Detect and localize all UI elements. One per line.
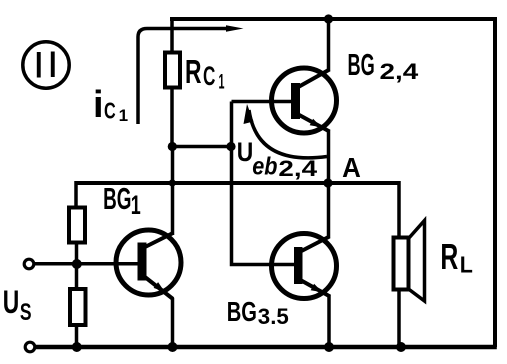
svg-text:U: U	[237, 137, 254, 167]
wire: top rail to BG2,4 collector	[327, 19, 331, 71]
svg-text:i: i	[93, 84, 104, 126]
wire: R1 bottom to tap	[75, 243, 79, 265]
label RC1	[185, 53, 225, 94]
svg-text:2,4: 2,4	[278, 156, 318, 181]
wire: node A corner down to speaker	[397, 181, 401, 239]
wire: vertical branch from BG2,4 base down to BG3,5 base	[232, 102, 296, 265]
junction dot on top rail	[324, 14, 333, 23]
wire: node A horizontal line	[76, 181, 399, 185]
wire: junction to BG2,4 base branch	[172, 145, 231, 149]
svg-text:1: 1	[131, 190, 141, 220]
junction dot rail at speaker	[396, 342, 406, 352]
wire: bottom rail	[35, 345, 497, 350]
junction blob where BG1 collector crosses node A line	[169, 179, 176, 186]
svg-text:BG: BG	[103, 182, 131, 216]
wire: BG2,4 emitter down to node A	[327, 130, 331, 183]
current arrow iC1	[138, 25, 244, 124]
input terminal upper	[24, 259, 34, 269]
wire: upper terminal to BG1 base	[34, 262, 138, 266]
wire: BG1 emitter down to bottom rail	[171, 298, 175, 347]
svg-text:L: L	[460, 251, 473, 277]
svg-text:A: A	[342, 152, 361, 183]
svg-text:BG: BG	[348, 48, 375, 82]
svg-text:R: R	[440, 236, 458, 277]
wire: BG1 collector up to RC1 junction	[171, 147, 175, 236]
junction dot divider tap	[72, 259, 82, 269]
label BG3,5	[227, 296, 289, 329]
wire: left corner down from top rail to RC1 top	[170, 17, 174, 54]
svg-text:C: C	[203, 61, 215, 91]
wire: top supply rail	[170, 17, 497, 21]
svg-text:3.5: 3.5	[258, 304, 289, 329]
transistor BG3,5	[272, 234, 337, 299]
svg-text:1: 1	[219, 70, 225, 93]
wire: node A line corner down into divider	[74, 181, 78, 208]
svg-text:1: 1	[119, 106, 128, 125]
transistor BG2,4	[272, 68, 337, 133]
svg-text:U: U	[3, 284, 20, 320]
svg-text:BG: BG	[227, 296, 257, 327]
circled 11 figure number	[23, 42, 69, 88]
node A junction dot	[323, 178, 332, 187]
wire: RC1 bottom to junction	[170, 88, 174, 148]
wire: speaker to bottom rail	[397, 290, 401, 348]
resistor RC1	[165, 53, 180, 88]
voltage arc Ueb2,4	[244, 104, 328, 158]
label BG1	[103, 182, 141, 220]
label Ueb2,4	[237, 137, 318, 181]
resistor R1 upper divider	[69, 208, 85, 243]
label iC1	[93, 84, 128, 126]
wire: right edge vertical	[493, 17, 497, 347]
junction dot rail at divider	[72, 342, 82, 352]
wire: R2 bottom to rail	[75, 325, 79, 347]
wire: BG2,4 base to vertical branch	[232, 100, 293, 104]
resistor R2 lower divider	[70, 289, 86, 325]
junction dot rail at BG3,5 emitter	[324, 342, 334, 352]
wire: node A down to BG3,5 collector	[327, 183, 331, 238]
svg-text:C: C	[104, 97, 116, 123]
wire: tap to R2 top	[75, 264, 79, 289]
transistor BG1	[116, 230, 181, 299]
svg-text:S: S	[20, 299, 32, 326]
label US source	[3, 284, 32, 326]
wire: BG3,5 emitter down to bottom rail	[327, 295, 331, 347]
label BG2,4	[348, 48, 420, 84]
junction dot rail at BG1 emitter	[168, 342, 178, 352]
input terminal lower	[25, 342, 35, 352]
svg-text:eb: eb	[252, 153, 277, 181]
junction dot at RC1 bottom	[168, 142, 177, 151]
speaker RL	[394, 221, 425, 302]
label RL	[440, 236, 472, 278]
svg-text:R: R	[185, 53, 202, 90]
svg-text:2,4: 2,4	[380, 59, 420, 84]
junction dot on base branch	[226, 142, 235, 151]
